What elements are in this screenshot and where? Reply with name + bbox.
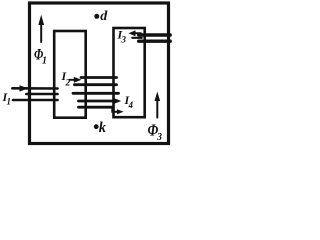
winding W4 turn 3 wire bbox=[79, 106, 113, 109]
svg-text:3: 3 bbox=[156, 132, 162, 143]
current I2 arrowhead bbox=[74, 77, 82, 83]
core right window bbox=[114, 28, 145, 117]
winding W4 (current I4) turn 1 wire bbox=[73, 92, 119, 95]
winding W3 (current I3) turn 1 wire bbox=[139, 33, 171, 36]
flux PHI3 arrowhead bbox=[155, 92, 161, 102]
label I4 bbox=[124, 93, 134, 110]
current I4 arrowhead on turn 2 bbox=[114, 98, 121, 104]
node d dot bbox=[94, 14, 99, 19]
flux arrow PHI3 shaft bbox=[156, 99, 158, 118]
svg-text:d: d bbox=[100, 9, 108, 24]
svg-text:1: 1 bbox=[42, 56, 47, 67]
winding W2 (current I2) turn 1 wire bbox=[81, 76, 117, 79]
svg-text:k: k bbox=[99, 120, 107, 136]
winding W4 lead bend down bbox=[112, 107, 118, 112]
flux arrow PHI1 shaft bbox=[40, 23, 42, 42]
current I3 arrowhead (points left) bbox=[128, 30, 135, 36]
core left window bbox=[54, 31, 85, 118]
winding W4 turn 2 wire bbox=[79, 100, 116, 103]
winding W3 lead stub bbox=[132, 37, 141, 39]
winding W1 (current I1) turn 1 wire bbox=[12, 87, 57, 90]
node k dot bbox=[94, 124, 99, 129]
winding W1 turn 3 wire bbox=[13, 99, 58, 102]
winding W3 lead arrow shaft bbox=[134, 32, 141, 34]
label I3 bbox=[117, 28, 127, 45]
flux PHI1 arrowhead bbox=[38, 15, 44, 25]
svg-text:1: 1 bbox=[7, 97, 12, 107]
current I1 arrowhead bbox=[20, 85, 29, 91]
winding W3 turn 2 wire bbox=[139, 40, 171, 43]
svg-text:4: 4 bbox=[128, 100, 134, 110]
label I1 bbox=[2, 90, 12, 107]
label PHI1 bbox=[34, 47, 47, 67]
label PHI3 bbox=[148, 121, 163, 143]
winding W2 turn 2 wire bbox=[75, 83, 117, 86]
label I2 bbox=[61, 69, 71, 89]
svg-text:2: 2 bbox=[65, 79, 71, 89]
core outer outline bbox=[30, 3, 169, 144]
winding W2 lead arrow shaft bbox=[70, 79, 76, 81]
svg-text:3: 3 bbox=[121, 35, 127, 45]
current I4 arrowhead on lead bbox=[117, 109, 124, 114]
winding W1 turn 2 wire bbox=[26, 93, 57, 96]
